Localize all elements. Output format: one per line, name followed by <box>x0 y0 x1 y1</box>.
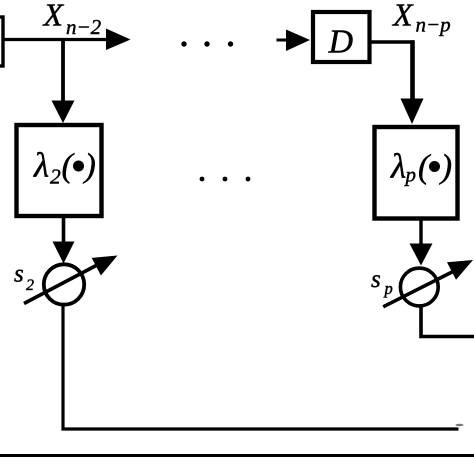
svg-text:s: s <box>371 266 381 293</box>
ellipsis dots top <box>181 41 186 46</box>
arrowhead into sp multiplier <box>410 244 433 266</box>
multiplier circle sp (variable gain) <box>400 268 438 306</box>
ellipsis dots middle <box>200 177 205 182</box>
svg-text:p: p <box>384 279 393 298</box>
svg-text:λ: λ <box>390 147 406 186</box>
bottom rule (cropped summation line) <box>0 454 474 457</box>
wire junction down from X_n-2 line <box>61 38 65 102</box>
svg-text:): ) <box>439 149 452 186</box>
wire from cropped box to right arrow <box>2 38 107 41</box>
box D (delay element) <box>313 12 370 62</box>
wire from s2 down and right along bottom <box>63 304 459 429</box>
partial box at left edge (delay element, cropped) <box>0 17 3 66</box>
arrowhead into D box <box>286 30 310 52</box>
multiplier circle s2 (variable gain) <box>44 264 84 304</box>
svg-text:2: 2 <box>50 165 61 189</box>
diagonal arrow through sp <box>383 270 456 307</box>
wire lambda2 box to multiplier <box>62 216 66 243</box>
svg-text:n−p: n−p <box>416 13 451 37</box>
svg-text:D: D <box>328 24 354 61</box>
wire into D box <box>277 39 289 42</box>
diagonal arrow through s2 <box>24 264 99 304</box>
svg-text:): ) <box>83 148 96 185</box>
wire from D box right then down <box>371 40 414 43</box>
arrowhead into lambda_p box <box>401 99 424 125</box>
scan speck <box>456 424 464 427</box>
svg-text:p: p <box>404 163 417 187</box>
svg-text:n−2: n−2 <box>66 15 102 39</box>
svg-text:X: X <box>391 0 414 33</box>
svg-text:X: X <box>42 0 65 33</box>
svg-text:2: 2 <box>26 277 34 294</box>
svg-text:λ: λ <box>33 146 49 185</box>
svg-text:s: s <box>14 261 24 288</box>
arrowhead into lambda2 box <box>52 101 75 124</box>
box lambda_2 (nonlinearity) <box>17 125 102 216</box>
arrowhead right on X_n-2 wire <box>106 29 131 51</box>
arrowhead into s2 multiplier <box>53 242 75 264</box>
wire from sp down then right off edge <box>421 305 474 337</box>
box lambda_p (nonlinearity) <box>375 127 458 219</box>
wire lambda_p box to multiplier <box>419 218 422 245</box>
